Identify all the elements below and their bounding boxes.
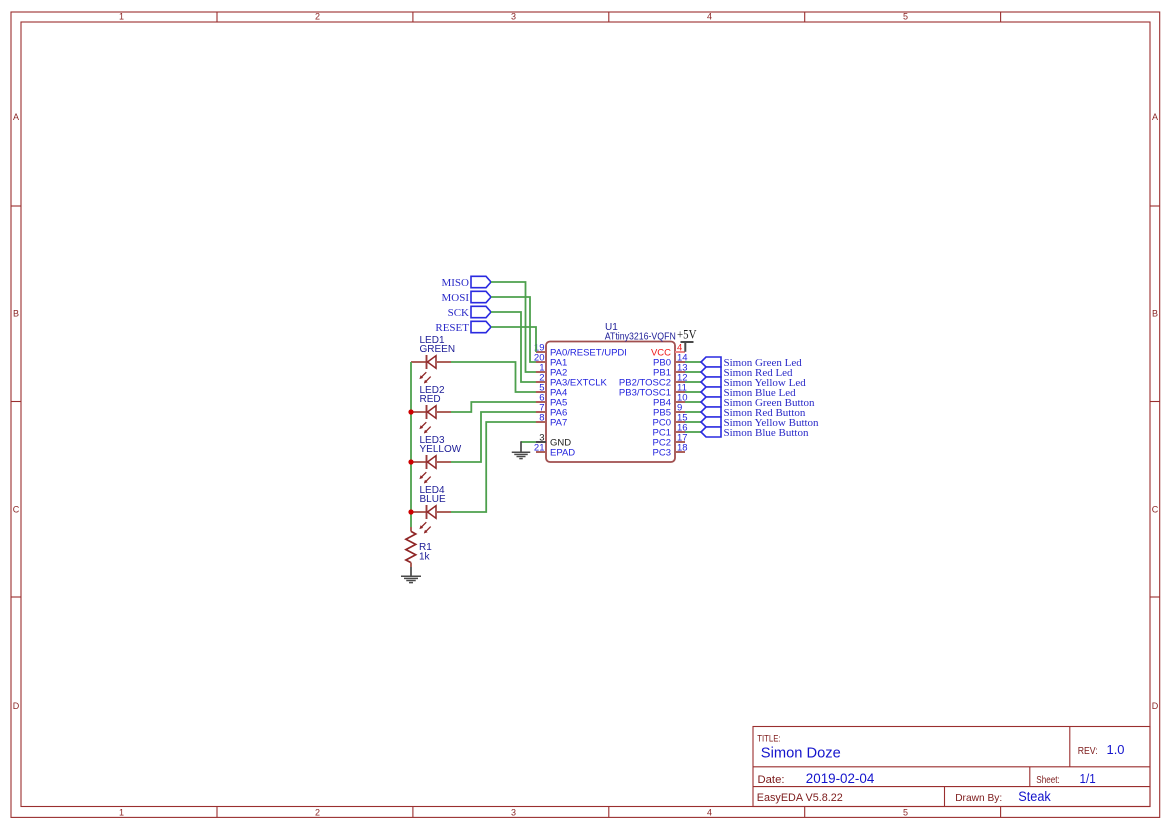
svg-text:B: B: [13, 309, 19, 319]
svg-text:1: 1: [119, 12, 124, 22]
svg-text:2: 2: [315, 12, 320, 22]
svg-text:MOSI: MOSI: [441, 292, 469, 304]
svg-text:EasyEDA V5.8.22: EasyEDA V5.8.22: [757, 792, 843, 804]
svg-text:GREEN: GREEN: [420, 344, 456, 355]
svg-text:3: 3: [511, 808, 516, 818]
svg-text:4: 4: [707, 12, 712, 22]
svg-text:C: C: [13, 505, 20, 515]
svg-text:Drawn By:: Drawn By:: [955, 792, 1002, 804]
svg-text:MISO: MISO: [441, 277, 469, 289]
svg-text:1/1: 1/1: [1080, 771, 1096, 786]
svg-text:18: 18: [677, 443, 688, 454]
svg-text:EPAD: EPAD: [550, 448, 575, 459]
svg-text:YELLOW: YELLOW: [420, 444, 462, 455]
svg-text:D: D: [13, 701, 20, 711]
svg-text:21: 21: [534, 443, 545, 454]
svg-text:Steak: Steak: [1018, 789, 1051, 804]
svg-text:REV:: REV:: [1078, 746, 1098, 757]
svg-text:+5V: +5V: [677, 327, 697, 342]
svg-text:3: 3: [511, 12, 516, 22]
svg-text:2: 2: [315, 808, 320, 818]
svg-text:D: D: [1152, 701, 1159, 711]
svg-text:Sheet:: Sheet:: [1036, 774, 1060, 786]
svg-text:4: 4: [707, 808, 712, 818]
svg-text:1.0: 1.0: [1107, 742, 1125, 757]
svg-text:Simon Doze: Simon Doze: [761, 744, 841, 761]
svg-text:C: C: [1152, 505, 1159, 515]
svg-text:1k: 1k: [419, 552, 431, 563]
svg-text:B: B: [1152, 309, 1158, 319]
svg-text:A: A: [1152, 112, 1158, 122]
svg-text:TITLE:: TITLE:: [757, 733, 781, 743]
svg-text:PC3: PC3: [653, 448, 671, 459]
svg-text:PA7: PA7: [550, 418, 567, 429]
svg-text:5: 5: [903, 808, 908, 818]
svg-text:SCK: SCK: [448, 307, 469, 319]
svg-text:BLUE: BLUE: [420, 494, 446, 505]
svg-text:ATtiny3216-VQFN: ATtiny3216-VQFN: [605, 332, 676, 343]
svg-text:A: A: [13, 112, 19, 122]
svg-text:5: 5: [903, 12, 908, 22]
svg-text:2019-02-04: 2019-02-04: [806, 771, 875, 786]
svg-text:Date:: Date:: [758, 774, 785, 786]
svg-text:8: 8: [539, 413, 544, 424]
svg-text:1: 1: [119, 808, 124, 818]
svg-text:Simon Blue Button: Simon Blue Button: [724, 427, 809, 439]
svg-text:RED: RED: [420, 394, 441, 405]
svg-text:RESET: RESET: [435, 322, 469, 334]
